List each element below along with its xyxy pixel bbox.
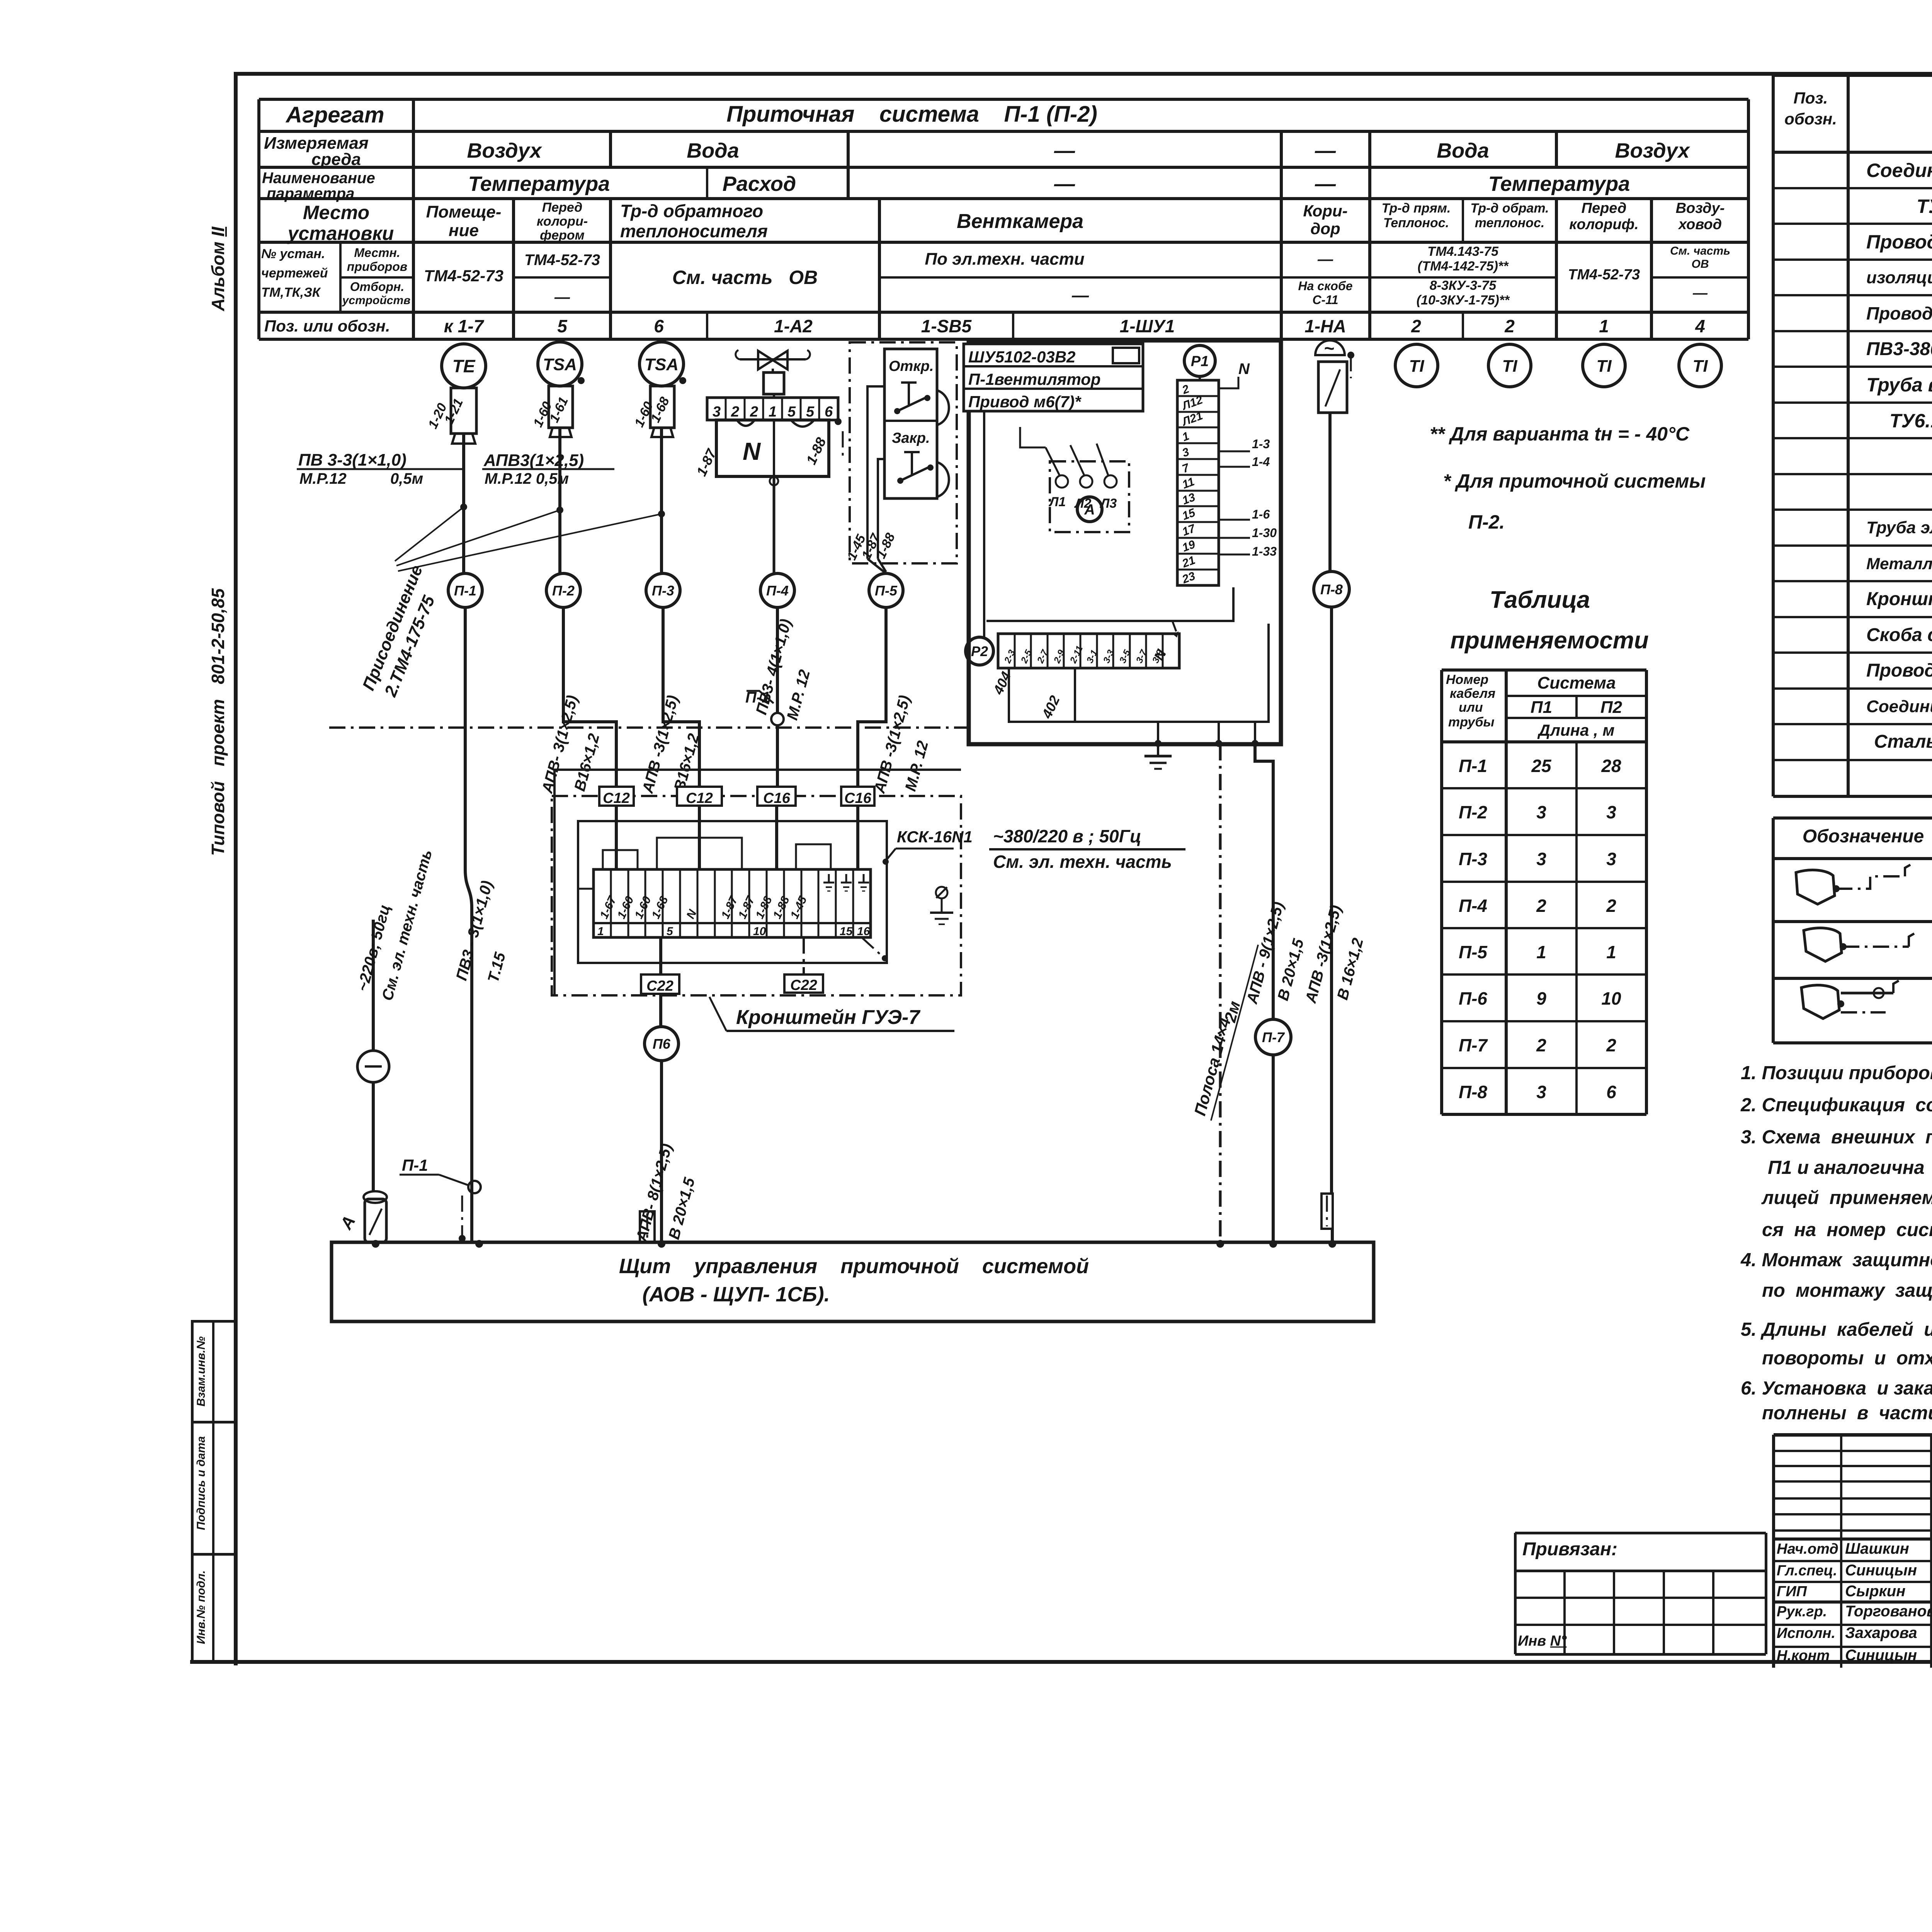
svg-text:П-2: П-2 [552, 583, 575, 599]
wires into strip [615, 806, 618, 869]
svg-text:5: 5 [806, 404, 815, 420]
svg-text:М.Р.12 0,5м: М.Р.12 0,5м [485, 470, 569, 487]
svg-text:16: 16 [857, 925, 870, 938]
cabinet ШУ5102-03В2 [969, 340, 1281, 744]
N bus wire [986, 587, 1233, 621]
control panel ЩУП bus [332, 1242, 1374, 1321]
wire П-7 [1255, 744, 1273, 1019]
svg-text:1-67: 1-67 [597, 894, 619, 921]
stub wires with numbers [1219, 451, 1250, 452]
svg-text:3-7: 3-7 [1134, 648, 1150, 665]
svg-text:19: 19 [1180, 538, 1197, 554]
svg-text:АПВ3(1×2,5): АПВ3(1×2,5) [483, 451, 584, 470]
svg-text:1: 1 [597, 925, 604, 938]
wire П-4 [776, 607, 779, 713]
svg-text:П-1: П-1 [454, 583, 476, 599]
svg-text:11: 11 [1180, 475, 1196, 492]
svg-text:N: N [1238, 361, 1250, 378]
lamp symbol [357, 1051, 389, 1082]
svg-text:3: 3 [1180, 446, 1191, 460]
svg-text:15: 15 [840, 925, 853, 938]
room boundary line [329, 726, 969, 729]
earth bolt in box [936, 887, 947, 898]
svg-text:15: 15 [1180, 506, 1197, 523]
applicability table [1490, 587, 1590, 612]
svg-text:21: 21 [1180, 554, 1197, 570]
conductor mark П-1 on wire П-4 [771, 713, 784, 725]
notes [1741, 1063, 1932, 1083]
svg-text:13: 13 [1180, 491, 1197, 507]
svg-text:1-88: 1-88 [803, 435, 829, 467]
unit internal wires [867, 386, 884, 559]
connector С22b [784, 975, 823, 993]
cable mark П-3 [646, 573, 680, 607]
svg-text:П-5: П-5 [875, 583, 898, 599]
actuator terminal strip 3-2-2-1-5-5-6 [707, 398, 838, 420]
indicator ТI 3 [1583, 344, 1625, 387]
svg-text:23: 23 [1180, 570, 1197, 586]
svg-text:7: 7 [1180, 461, 1191, 475]
cable mark П-5 [869, 573, 903, 607]
svg-text:П-2.: П-2. [1468, 511, 1505, 533]
seal box on П-6 [640, 1211, 655, 1242]
svg-text:Кронштейн ГУЭ-7: Кронштейн ГУЭ-7 [736, 1006, 920, 1029]
wire П-6 [659, 994, 662, 1027]
svg-text:С16: С16 [763, 790, 791, 806]
svg-text:404: 404 [990, 669, 1014, 697]
svg-text:1-88: 1-88 [770, 894, 792, 921]
svg-text:В16×1,2: В16×1,2 [671, 732, 702, 793]
indicator ТI 4 [1679, 344, 1721, 387]
top parameter table [259, 98, 1748, 101]
sensor П-8 (1-НА) [1315, 340, 1345, 355]
limit switch unit Откр/Закр (SB5) [850, 342, 957, 563]
svg-text:1-68: 1-68 [649, 894, 670, 921]
svg-text:ШУ5102-03В2: ШУ5102-03В2 [968, 348, 1075, 366]
connector С12 [599, 787, 634, 806]
svg-text:** Для варианта tн = - 40°С: ** Для варианта tн = - 40°С [1430, 423, 1690, 445]
svg-text:С22: С22 [646, 978, 673, 994]
svg-text:Т.15: Т.15 [485, 950, 509, 984]
connector С12b [677, 787, 722, 806]
svg-text:Р1: Р1 [1191, 354, 1209, 370]
svg-text:~380/220 в ; 50Гц: ~380/220 в ; 50Гц [993, 826, 1141, 846]
svg-text:1-6: 1-6 [1252, 507, 1270, 521]
wire П-2 [558, 428, 561, 573]
cable mark П-2 [546, 573, 580, 607]
indicator ТI 1 [1395, 344, 1438, 387]
svg-text:Привод м6(7)*: Привод м6(7)* [968, 393, 1082, 411]
svg-text:1-4: 1-4 [1252, 455, 1270, 469]
svg-text:ТI: ТI [1596, 357, 1612, 376]
connector С16b [841, 787, 874, 806]
svg-text:С16: С16 [844, 790, 872, 806]
ground terminals in strip [828, 874, 830, 882]
svg-text:10: 10 [753, 925, 766, 938]
wire П-8 lower [1330, 607, 1333, 1194]
svg-text:М.Р. 12: М.Р. 12 [784, 668, 813, 722]
svg-text:ПВ 3-3(1×1,0): ПВ 3-3(1×1,0) [298, 451, 406, 469]
junction dots and leaders [460, 503, 467, 510]
svg-text:(АОВ - ЩУП- 1СБ).: (АОВ - ЩУП- 1СБ). [642, 1283, 830, 1306]
wire strip to С22 [659, 937, 662, 975]
svg-text:1-88: 1-88 [753, 894, 774, 921]
wire П-4 from actuator [773, 476, 776, 573]
svg-text:П-1: П-1 [402, 1156, 428, 1174]
svg-text:1-87: 1-87 [719, 894, 740, 921]
terminal strip КСК-16 [594, 869, 871, 937]
svg-text:6: 6 [825, 404, 833, 420]
motor terminal box [1050, 461, 1129, 532]
svg-text:С22: С22 [790, 977, 817, 993]
sensor TE (pos 1-20/1-21) [442, 344, 486, 388]
svg-text:ТSА: ТSА [543, 355, 577, 374]
legend symbol 1 [1796, 870, 1835, 904]
svg-text:П-4: П-4 [766, 583, 789, 599]
bus junction dots [372, 1240, 379, 1248]
svg-text:ТSА: ТSА [645, 355, 679, 374]
internal wires to ground [1009, 624, 1269, 722]
svg-text:402: 402 [1039, 693, 1063, 721]
svg-text:П-1вентилятор: П-1вентилятор [968, 370, 1101, 388]
specification table [1773, 74, 1932, 77]
svg-text:См. эл. техн. часть: См. эл. техн. часть [993, 852, 1172, 872]
svg-text:В 16×1,2: В 16×1,2 [1334, 936, 1367, 1002]
svg-text:1-30: 1-30 [1252, 526, 1277, 540]
cable end capsule A [364, 1191, 387, 1203]
valve А2 [740, 358, 806, 361]
svg-text:ТI: ТI [1692, 357, 1708, 376]
svg-text:2: 2 [1180, 383, 1191, 397]
relay Р1 [1184, 345, 1215, 376]
symbol legend table [1773, 816, 1932, 820]
svg-text:М.Р. 12: М.Р. 12 [902, 739, 932, 793]
svg-text:* Для приточной системы: * Для приточной системы [1443, 470, 1706, 492]
ground under cabinet [1157, 744, 1159, 756]
svg-text:1-60: 1-60 [632, 894, 653, 921]
svg-text:3: 3 [713, 404, 721, 420]
svg-text:2-11: 2-11 [1068, 644, 1085, 665]
svg-text:А: А [1084, 502, 1095, 518]
svg-text:ТЕ: ТЕ [452, 356, 476, 376]
cable mark П-7 [1255, 1019, 1291, 1055]
wire П-5 [858, 607, 886, 787]
actuator body M6(7) [716, 420, 829, 476]
sensor TSA (pos 1-60/1-61) [538, 342, 582, 386]
legend symbol 3 [1801, 985, 1839, 1019]
relay Р2 [966, 637, 993, 665]
svg-text:Л1: Л1 [1048, 495, 1066, 509]
sensor TSA2 (pos 1-60/1-68) [639, 342, 684, 386]
bottom-left margin strip [191, 1321, 194, 1662]
svg-text:КСК-16N1: КСК-16N1 [897, 828, 973, 846]
left margin captions [209, 227, 227, 311]
svg-text:1: 1 [1180, 430, 1191, 444]
svg-text:М.Р.12: М.Р.12 [299, 470, 347, 487]
svg-text:ТI: ТI [1502, 357, 1517, 376]
sheet frame [234, 72, 1932, 76]
svg-text:1-87: 1-87 [736, 894, 757, 921]
svg-text:П-3: П-3 [652, 583, 674, 599]
privyazan block [1515, 1532, 1766, 1534]
legend symbol 2 [1804, 928, 1842, 961]
svg-text:Откр.: Откр. [889, 358, 934, 374]
internal jumpers [603, 850, 638, 869]
junction box КСК-16 N1 [578, 821, 887, 963]
svg-text:Щит управления приточной: Щит управления приточной системой [619, 1255, 1089, 1278]
vertical terminal strip [1177, 380, 1219, 585]
wire Полоса 14х4 [1219, 744, 1222, 1242]
wire П-1 [462, 434, 465, 573]
svg-text:1-3: 1-3 [1252, 437, 1270, 451]
connector С16 [757, 787, 796, 806]
conductor mark on П-1 [468, 1181, 481, 1193]
svg-text:ТI: ТI [1409, 357, 1424, 376]
wire ~220V [372, 920, 375, 1051]
horizontal terminal strip [998, 634, 1179, 668]
svg-text:1: 1 [769, 404, 777, 420]
ammeter А [1077, 497, 1102, 522]
bracket ГУЭ-7 outline [552, 796, 961, 995]
svg-text:П-7: П-7 [1262, 1029, 1285, 1045]
svg-text:П-8: П-8 [1320, 582, 1343, 597]
svg-text:2: 2 [731, 404, 739, 420]
svg-text:Р2: Р2 [971, 643, 988, 659]
svg-text:N: N [743, 437, 761, 465]
svg-text:~: ~ [1324, 338, 1334, 358]
svg-text:В 20×1,5: В 20×1,5 [665, 1175, 698, 1241]
svg-text:2: 2 [750, 404, 758, 420]
cable mark П-8 [1314, 571, 1349, 607]
svg-text:5: 5 [787, 404, 796, 420]
svg-text:1-45: 1-45 [788, 894, 810, 921]
cable mark П-1 [448, 573, 482, 607]
svg-text:Полоса 14×4: Полоса 14×4 [1190, 1016, 1234, 1117]
svg-text:С12: С12 [686, 790, 713, 806]
svg-text:В16×1,2: В16×1,2 [571, 732, 603, 793]
connector С22 [641, 975, 679, 994]
svg-text:А: А [337, 1213, 359, 1233]
svg-text:Закр.: Закр. [892, 430, 930, 446]
indicator ТI 2 [1488, 344, 1531, 387]
svg-text:0,5м: 0,5м [390, 470, 423, 487]
wire П-3 [660, 428, 663, 573]
svg-text:1-33: 1-33 [1252, 544, 1277, 558]
cable mark П-6 [645, 1027, 679, 1061]
svg-text:1-60: 1-60 [615, 894, 636, 921]
svg-text:В 20×1,5: В 20×1,5 [1274, 937, 1307, 1002]
cable mark П-4 [760, 573, 794, 607]
svg-text:5: 5 [667, 925, 673, 938]
cabinet label box [964, 344, 1143, 411]
title block [1774, 1433, 1932, 1437]
svg-text:П6: П6 [653, 1036, 671, 1052]
svg-text:С12: С12 [603, 790, 630, 806]
svg-text:17: 17 [1180, 522, 1197, 539]
